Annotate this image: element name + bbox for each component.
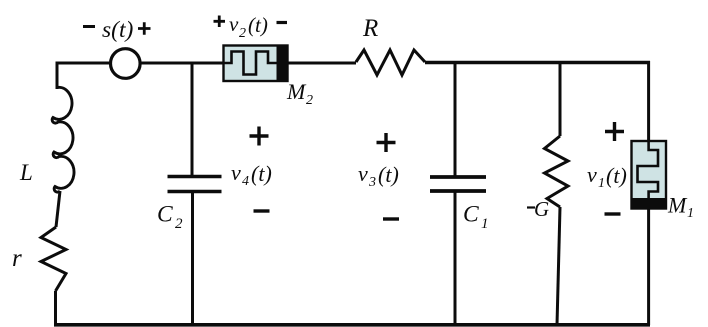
wire: between L and r <box>56 191 60 227</box>
svg-text:v: v <box>358 161 368 186</box>
svg-text:1: 1 <box>481 216 489 232</box>
wire: top-left horizontal segment from left corner to source circle <box>57 62 110 65</box>
svg-text:R: R <box>362 15 378 42</box>
resistor R zigzag <box>356 50 425 75</box>
svg-text:4: 4 <box>242 174 249 189</box>
svg-text:v: v <box>229 12 239 36</box>
wire: M2 to resistor R <box>288 62 357 65</box>
label C1 <box>463 202 489 233</box>
wire: M1 branch vertical upper <box>647 61 650 141</box>
label - s(t) + <box>83 17 151 43</box>
label + v3(t) - for C1 <box>358 133 399 219</box>
memristor M1 body <box>632 141 667 209</box>
svg-text:(t): (t) <box>378 162 399 187</box>
capacitor C2 plates <box>168 177 222 192</box>
svg-text:v: v <box>231 160 241 185</box>
svg-text:r: r <box>12 245 22 272</box>
svg-text:1: 1 <box>598 176 605 191</box>
svg-text:2: 2 <box>239 26 246 41</box>
svg-text:2: 2 <box>175 216 183 232</box>
label C2 <box>157 202 183 233</box>
svg-text:M: M <box>667 193 688 218</box>
label -G <box>527 197 549 221</box>
label M1 <box>667 193 694 222</box>
svg-text:3: 3 <box>368 175 376 190</box>
wire: left vertical top segment <box>56 62 59 90</box>
svg-text:2: 2 <box>306 93 313 108</box>
source s(t) circle U1 <box>111 49 141 79</box>
resistor r zigzag <box>41 227 66 291</box>
label M2 <box>286 79 313 108</box>
wire: C2 branch vertical lower <box>191 192 194 326</box>
label + v1(t) - for M1 <box>587 122 627 214</box>
label + v4(t) - for C2 <box>231 127 272 212</box>
wire: from circle to C2 junction and to memristor M2 <box>140 62 224 65</box>
svg-text:s(t): s(t) <box>102 17 134 43</box>
svg-text:v: v <box>587 162 597 187</box>
svg-text:C: C <box>463 202 479 228</box>
svg-text:M: M <box>286 79 307 104</box>
wire: R to top-right corner <box>425 61 650 64</box>
svg-text:L: L <box>19 160 33 185</box>
wire: -G branch vertical lower <box>557 207 560 325</box>
wire: -G branch vertical upper <box>559 61 562 136</box>
resistor -G zigzag <box>545 136 569 207</box>
svg-text:(t): (t) <box>251 161 272 186</box>
svg-text:G: G <box>534 197 549 221</box>
svg-text:1: 1 <box>687 206 694 221</box>
wire: C1 branch vertical upper <box>454 61 457 177</box>
wire: C2 branch vertical upper <box>191 62 194 177</box>
memristor M2 body <box>224 46 288 82</box>
wire: M1 branch vertical lower <box>647 208 650 325</box>
wire: r to bottom-left corner <box>54 291 57 325</box>
wire: bottom horizontal <box>54 323 650 327</box>
wire: C1 branch vertical lower <box>454 191 457 325</box>
inductor L coil <box>52 87 74 192</box>
svg-text:(t): (t) <box>606 163 627 188</box>
svg-text:C: C <box>157 202 173 228</box>
svg-text:(t): (t) <box>248 13 268 37</box>
capacitor C1 plates <box>430 177 486 191</box>
label + v2(t) - <box>214 12 288 41</box>
